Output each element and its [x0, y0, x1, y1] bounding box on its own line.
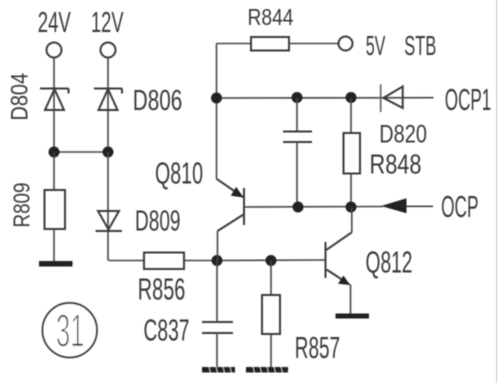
- node D junction: [266, 255, 277, 266]
- wire rail: [217, 97, 434, 99]
- resistor R856: [138, 253, 186, 307]
- wire node D to R857: [270, 261, 272, 296]
- wire D809 to R856: [109, 260, 145, 262]
- diode D820: [379, 84, 427, 148]
- node G junction (rail R848): [346, 92, 357, 103]
- svg-text:24V: 24V: [38, 7, 71, 39]
- transistor Q812: [326, 207, 413, 314]
- node F junction (rail cap): [292, 92, 303, 103]
- wire R844 left vertical to rail and Q810 emitter: [216, 44, 218, 179]
- diode D809: [96, 206, 181, 238]
- wire node C to node D to Q812 base: [217, 259, 325, 262]
- scan edge artifact: [496, 0, 498, 383]
- wire C837 to ground: [216, 333, 218, 368]
- node C junction: [212, 255, 223, 266]
- svg-text:R809: R809: [9, 183, 35, 228]
- transistor Q810: [155, 156, 244, 261]
- wire OCP arrow stub: [407, 205, 434, 207]
- zener diode D804: [6, 73, 68, 121]
- node A junction: [49, 147, 60, 158]
- wire node B through D809: [107, 152, 109, 261]
- wire node A to R809: [53, 152, 55, 190]
- svg-text:STB: STB: [404, 30, 436, 61]
- ground (R809): [39, 261, 73, 267]
- wire 24V terminal to node A: [53, 58, 55, 153]
- wire node A to node B: [54, 151, 108, 153]
- wire R809 to ground: [53, 229, 55, 262]
- ground (C837): [202, 367, 235, 374]
- capacitor (mid): [283, 132, 312, 143]
- resistor R857: [262, 295, 340, 365]
- svg-text:D804: D804: [6, 73, 33, 121]
- svg-text:D809: D809: [135, 206, 181, 238]
- node H junction (OCP line cap): [293, 202, 304, 213]
- node E junction (rail left): [211, 93, 222, 104]
- wire R856 to node C: [184, 260, 217, 262]
- ground (Q812 emitter): [336, 314, 370, 319]
- wire 12V terminal to node B: [107, 58, 109, 153]
- svg-text:31: 31: [56, 305, 84, 357]
- wire OCP line: [245, 206, 383, 209]
- resistor R848: [344, 133, 422, 180]
- svg-text:R848: R848: [370, 149, 422, 180]
- wire R844 to 5V STB terminal: [289, 43, 339, 45]
- svg-text:Q812: Q812: [366, 245, 413, 280]
- ground (R857): [246, 367, 288, 374]
- wire capacitor to OCP line: [296, 142, 298, 207]
- svg-text:R857: R857: [295, 330, 340, 365]
- svg-text:12V: 12V: [91, 7, 124, 39]
- OCP input arrow: [381, 198, 407, 213]
- wire rail to capacitor: [296, 98, 298, 132]
- wire rail to R848: [350, 98, 352, 133]
- svg-text:OCP1: OCP1: [445, 82, 492, 117]
- svg-text:D806: D806: [133, 85, 183, 117]
- resistor R844: [248, 4, 294, 51]
- svg-text:R856: R856: [138, 272, 186, 307]
- wire node C to C837: [216, 261, 218, 323]
- svg-text:D820: D820: [379, 120, 427, 148]
- terminal 5V STB: [339, 30, 437, 61]
- node B junction: [103, 147, 114, 158]
- resistor R809: [9, 183, 65, 230]
- wire to R844: [217, 43, 252, 45]
- page marker 31: [42, 303, 97, 358]
- svg-text:R844: R844: [248, 4, 294, 30]
- svg-text:Q810: Q810: [155, 156, 203, 191]
- node I junction (OCP line R848): [346, 202, 357, 213]
- svg-text:C837: C837: [144, 313, 190, 348]
- svg-text:OCP: OCP: [441, 189, 479, 224]
- zener diode D806: [94, 85, 182, 117]
- capacitor C837: [144, 313, 234, 348]
- wire R857 to ground: [270, 334, 272, 368]
- terminal 24V: [38, 7, 71, 58]
- terminal 12V: [91, 7, 124, 58]
- wire R848 to OCP line: [350, 174, 352, 208]
- svg-text:5V: 5V: [366, 30, 386, 61]
